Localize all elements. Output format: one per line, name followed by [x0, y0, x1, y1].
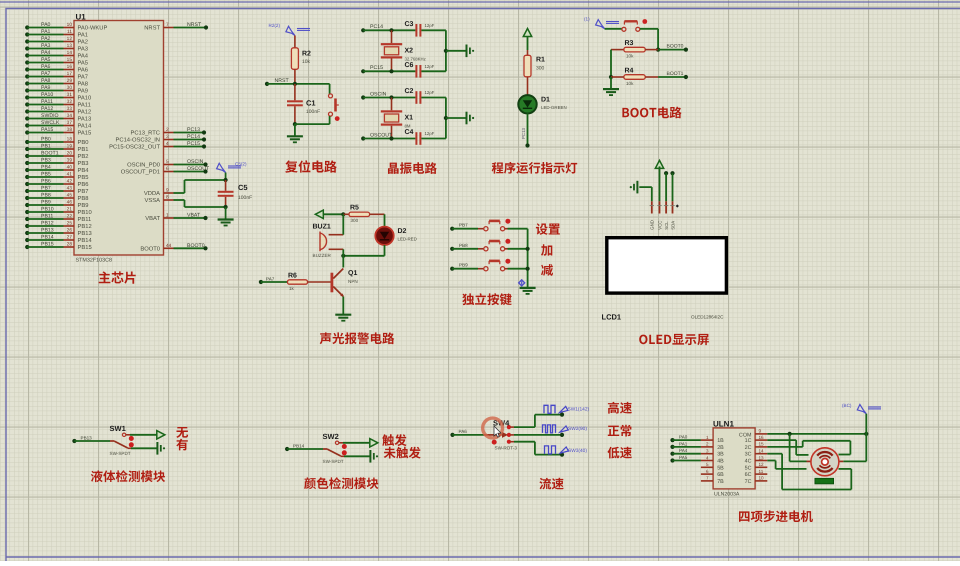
svg-text:PB12: PB12 — [41, 221, 54, 227]
pin PB8 wire + label — [25, 193, 88, 203]
svg-text:VCC: VCC — [657, 221, 662, 230]
label LCD1 — [602, 313, 622, 322]
svg-text:45: 45 — [67, 193, 73, 199]
value OLED12864I2C — [691, 315, 724, 320]
resistor R2 — [291, 48, 311, 84]
svg-text:18: 18 — [67, 137, 73, 143]
svg-text:PB10: PB10 — [78, 209, 92, 216]
svg-text:PB7: PB7 — [459, 223, 468, 228]
svg-text:44: 44 — [166, 243, 172, 249]
pin PB12 wire + label — [25, 221, 92, 231]
svg-text:PA0: PA0 — [41, 22, 51, 28]
wire SW1 bottom throw to ground — [131, 447, 157, 449]
svg-text:PB11: PB11 — [41, 214, 53, 220]
svg-text:14: 14 — [759, 449, 765, 454]
net PC14 wire — [361, 24, 415, 32]
pin 7C of ULN1 — [745, 476, 768, 485]
svg-text:SW1: SW1 — [110, 424, 126, 433]
wire to button — [329, 84, 331, 94]
svg-text:10: 10 — [67, 22, 73, 28]
wire flag to boot button — [605, 28, 622, 30]
label four-phase stepper motor (Chinese) — [739, 510, 813, 522]
svg-text:PA8: PA8 — [41, 78, 51, 84]
svg-text:PA3: PA3 — [78, 46, 89, 53]
svg-text:SDA: SDA — [670, 221, 675, 230]
common key bus wire — [526, 229, 530, 288]
LED D1 (green) — [518, 95, 566, 113]
svg-text:PA1: PA1 — [78, 33, 89, 39]
svg-text:13: 13 — [759, 455, 765, 460]
svg-text:PB14: PB14 — [78, 238, 93, 244]
svg-text:300: 300 — [351, 218, 359, 223]
svg-text:10: 10 — [759, 476, 765, 481]
wires buzzer to nodes — [342, 214, 344, 256]
svg-text:SW2: SW2 — [323, 432, 339, 441]
svg-text:BOOT0: BOOT0 — [667, 44, 684, 50]
svg-text:2: 2 — [706, 442, 709, 447]
svg-text:PA9: PA9 — [78, 88, 89, 95]
svg-text:PA4: PA4 — [41, 50, 51, 56]
wire C3 to corner — [421, 30, 446, 71]
svg-text:PB13: PB13 — [41, 228, 54, 234]
svg-text:4: 4 — [166, 141, 169, 147]
svg-text:PB0: PB0 — [41, 137, 51, 143]
svg-text:PC14-OSC32_IN: PC14-OSC32_IN — [116, 137, 160, 144]
svg-text:GND: GND — [650, 220, 655, 230]
ground (crystal X1) — [467, 112, 475, 125]
svg-text:Q1: Q1 — [348, 270, 357, 277]
label not triggered (Chinese) — [384, 447, 421, 459]
IC ULN1 body — [713, 428, 755, 489]
svg-text:1B: 1B — [717, 438, 724, 444]
label flow speed (Chinese) — [539, 478, 563, 490]
svg-text:25: 25 — [67, 221, 73, 227]
svg-text:R3: R3 — [625, 40, 634, 47]
svg-text:C5: C5 — [238, 183, 248, 192]
pin PA2 wire + label — [25, 36, 88, 46]
wire to ground + junction — [444, 116, 466, 120]
pin PA8 wire + label — [25, 78, 88, 88]
pin 3B of ULN1 — [670, 448, 724, 458]
buzzer BUZ1 — [313, 224, 344, 259]
svg-text:PA10: PA10 — [78, 95, 92, 102]
pin 5C of ULN1 — [745, 462, 768, 471]
svg-text:PA15: PA15 — [41, 127, 53, 133]
svg-text:PA7: PA7 — [266, 277, 275, 282]
svg-text:5: 5 — [706, 462, 709, 467]
wire 2C to motor right-upper — [767, 441, 850, 455]
wire D2 to collector node — [341, 245, 384, 258]
svg-text:PB4: PB4 — [78, 168, 90, 174]
pin 2C of ULN1 — [745, 442, 768, 451]
capacitor C3 — [405, 21, 435, 37]
pin VBAT wire + net VBAT — [145, 213, 207, 223]
svg-text:C3: C3 — [405, 21, 414, 28]
pin PB15 wire + label — [25, 242, 92, 252]
svg-text:PA12: PA12 — [41, 106, 53, 112]
net BOOT0 wire — [658, 44, 688, 52]
svg-text:PB13: PB13 — [78, 230, 92, 237]
pin PB2 wire + label — [25, 151, 88, 161]
svg-text:PA7: PA7 — [41, 71, 51, 77]
svg-text:3: 3 — [706, 449, 709, 454]
svg-text:X2: X2 — [405, 47, 414, 54]
pin OSCOUT_PD1 wire + net OSCOUT — [121, 166, 210, 176]
svg-text:PC13: PC13 — [187, 127, 200, 133]
svg-text:21: 21 — [67, 207, 73, 213]
svg-text:(1): (1) — [584, 17, 590, 22]
svg-text:SW-ROT-3: SW-ROT-3 — [495, 446, 518, 451]
pin 1B of ULN1 — [670, 435, 724, 445]
svg-text:1C: 1C — [745, 438, 752, 444]
pin 6C of ULN1 — [745, 469, 768, 478]
push button (BOOT0 select) — [622, 19, 647, 31]
svg-text:C4: C4 — [405, 129, 414, 136]
pin PB7 wire + label — [25, 186, 88, 196]
pin 2B of ULN1 — [670, 441, 724, 451]
net OSCIN wire — [361, 91, 415, 99]
pulse source SW2(90) — [543, 425, 588, 433]
value STM32F103C8 — [76, 258, 113, 264]
power flag (1) — [584, 17, 619, 29]
net PC15 wire — [361, 65, 415, 73]
svg-text:PA2: PA2 — [41, 36, 51, 42]
svg-text:6C: 6C — [745, 472, 752, 478]
svg-text:VDDA: VDDA — [144, 191, 160, 197]
svg-text:C6: C6 — [405, 62, 414, 69]
capacitor C2 — [405, 88, 435, 104]
svg-text:VBAT: VBAT — [187, 213, 201, 219]
svg-text:ULN2003A: ULN2003A — [714, 492, 740, 498]
push button PB8 + wire — [450, 239, 527, 251]
pin PA15 wire + label — [25, 127, 91, 137]
net PA6 wire — [450, 429, 484, 437]
svg-text:7B: 7B — [717, 479, 724, 485]
label sound-light alarm circuit (Chinese) — [320, 332, 395, 344]
label color detect module (Chinese) — [304, 477, 378, 489]
svg-text:PA0-WKUP: PA0-WKUP — [78, 25, 108, 32]
svg-text:2: 2 — [166, 127, 169, 133]
pin 3C of ULN1 — [745, 449, 768, 458]
svg-text:BOOT0: BOOT0 — [187, 243, 205, 249]
svg-text:U1: U1 — [76, 13, 87, 22]
svg-text:PA13: PA13 — [78, 116, 92, 123]
svg-text:34: 34 — [67, 113, 73, 119]
pin PA14 wire + label — [25, 120, 92, 130]
wire COM row — [767, 432, 868, 436]
svg-text:PB14: PB14 — [293, 444, 305, 449]
svg-text:OSCIN: OSCIN — [187, 159, 204, 165]
svg-text:6: 6 — [166, 166, 169, 172]
svg-text:PA3: PA3 — [41, 43, 51, 49]
svg-text:1: 1 — [706, 435, 709, 440]
resistor R6 + net PA7 — [259, 273, 331, 292]
wire SW4 mid to pulse — [514, 433, 564, 437]
svg-text:PC14: PC14 — [187, 134, 200, 140]
svg-text:11: 11 — [759, 469, 764, 474]
svg-text:PA14: PA14 — [78, 124, 93, 130]
wire to ground + junction — [444, 49, 466, 53]
pin 1C of ULN1 — [745, 435, 768, 444]
pin PB5 wire + label — [25, 172, 88, 182]
wire below D1 + net PC13 — [521, 114, 530, 148]
svg-text:22: 22 — [67, 214, 73, 220]
resistor R5 — [343, 205, 384, 224]
pin PB3 wire + label — [25, 158, 88, 168]
tiny node marker — [676, 204, 679, 207]
svg-text:100nF: 100nF — [306, 109, 320, 115]
svg-text:R2(2): R2(2) — [269, 23, 281, 28]
svg-text:27: 27 — [67, 235, 73, 241]
svg-text:PB9: PB9 — [459, 263, 468, 268]
svg-text:PB15: PB15 — [41, 242, 54, 248]
wire 4C to motor left-lower — [767, 461, 806, 469]
svg-text:38: 38 — [67, 127, 73, 133]
pin VSSA wire — [145, 195, 226, 207]
pin PB6 wire + label — [25, 179, 88, 189]
capacitor C1 — [287, 84, 320, 124]
svg-text:7C: 7C — [745, 479, 752, 485]
power flag R2(2) — [269, 23, 311, 48]
wire 1C to motor left-upper — [767, 440, 808, 455]
svg-text:R1: R1 — [536, 57, 545, 64]
svg-text:20: 20 — [67, 151, 73, 157]
svg-text:16: 16 — [759, 435, 765, 440]
wire flag down to motor right — [843, 414, 866, 462]
svg-text:100nF: 100nF — [238, 195, 252, 201]
crystal X2 — [381, 30, 426, 71]
svg-text:NPN: NPN — [348, 279, 358, 284]
pin PA11 wire + label — [25, 99, 91, 109]
highlight ring + cursor — [483, 418, 503, 438]
pin PA6 wire + label — [25, 64, 88, 74]
wire node to Q1 collector — [342, 256, 344, 268]
OLED pin names rotated — [650, 220, 655, 230]
svg-text:PA2: PA2 — [78, 39, 89, 46]
svg-text:PB9: PB9 — [41, 200, 51, 206]
svg-text:OSCIN_PD0: OSCIN_PD0 — [127, 162, 160, 169]
net BOOT1 wire — [658, 71, 688, 79]
wire to ground + ground (BOOT) — [603, 77, 619, 95]
label reset circuit (Chinese) — [285, 160, 337, 172]
push button (reset) — [329, 94, 340, 121]
svg-text:PB5: PB5 — [41, 172, 51, 178]
svg-text:D1: D1 — [541, 97, 550, 104]
wire SW2 top throw to power arrow — [343, 439, 378, 447]
label BOOT circuit (Chinese) — [622, 107, 681, 119]
svg-text:NRST: NRST — [275, 78, 290, 84]
svg-text:PB3: PB3 — [41, 158, 51, 164]
pin PA7 wire + label — [25, 71, 88, 81]
svg-text:PA5: PA5 — [679, 455, 688, 460]
label program running indicator (Chinese) — [492, 162, 578, 174]
switch SW4 (SW-ROT-3) — [484, 419, 517, 451]
pin PA10 wire + label — [25, 92, 91, 102]
svg-text:26: 26 — [67, 228, 73, 234]
ground (keys) — [520, 288, 536, 294]
svg-text:ULN1: ULN1 — [713, 419, 734, 428]
ground under C5 — [218, 220, 234, 226]
label minus (Chinese) — [541, 264, 553, 276]
capacitor C6 — [405, 62, 435, 78]
stepper motor — [807, 448, 844, 476]
svg-text:PB8: PB8 — [78, 195, 89, 202]
svg-text:6B: 6B — [717, 472, 724, 478]
svg-text:12: 12 — [67, 36, 73, 42]
LED D2 (red) — [375, 227, 416, 245]
pin PB13 wire + label — [25, 228, 92, 238]
svg-text:PB5: PB5 — [78, 175, 89, 181]
svg-text:13: 13 — [67, 43, 73, 49]
node C5 top — [224, 178, 228, 191]
wire R5 to D2 — [384, 214, 386, 227]
svg-text:39: 39 — [67, 158, 73, 164]
svg-text:PA10: PA10 — [41, 92, 53, 98]
pin PC15-OSC32_OUT wire + net PC15 — [109, 141, 206, 151]
pulse source SW3(40) — [545, 446, 588, 454]
svg-text:9: 9 — [759, 429, 762, 434]
svg-text:LCD1: LCD1 — [602, 313, 622, 322]
svg-text:1k: 1k — [289, 286, 295, 291]
power arrow (LED supply) — [523, 29, 531, 51]
svg-text:PC14: PC14 — [370, 24, 383, 30]
svg-text:VSSA: VSSA — [145, 197, 161, 204]
pin PC14-OSC32_IN wire + net PC14 — [116, 134, 207, 144]
svg-text:17: 17 — [67, 71, 73, 77]
net PB14 wire — [285, 444, 323, 452]
push button PB7 + wire — [450, 219, 527, 231]
svg-text:PB10: PB10 — [41, 207, 54, 213]
svg-text:(BC): (BC) — [842, 403, 852, 408]
svg-text:12pF: 12pF — [425, 131, 435, 136]
svg-text:32: 32 — [67, 99, 73, 105]
svg-text:PB7: PB7 — [78, 189, 89, 195]
bottom wire of reset — [293, 116, 330, 136]
wire SW4 top to pulse — [514, 413, 564, 428]
svg-text:PB8: PB8 — [459, 243, 468, 248]
wire SW1 top throw to power arrow — [130, 431, 165, 439]
svg-text:5: 5 — [166, 159, 169, 165]
resistor R4 — [611, 68, 658, 86]
label high speed (Chinese) — [608, 402, 632, 414]
ground reset — [287, 136, 303, 142]
svg-text:2C: 2C — [745, 445, 752, 451]
svg-text:7: 7 — [166, 22, 169, 28]
svg-text:8M: 8M — [405, 124, 411, 129]
svg-text:NRST: NRST — [187, 22, 202, 28]
svg-text:PA11: PA11 — [41, 99, 53, 105]
svg-text:3C: 3C — [745, 452, 752, 458]
svg-text:PA4: PA4 — [679, 448, 688, 453]
pin 4C of ULN1 — [745, 455, 768, 464]
pin PA5 wire + label — [25, 57, 88, 67]
svg-text:PB1: PB1 — [78, 147, 89, 153]
svg-text:42: 42 — [67, 179, 73, 185]
pin BOOT0 wire + net BOOT0 — [140, 243, 207, 253]
blue marker (keys) — [519, 280, 525, 286]
svg-text:29: 29 — [67, 78, 73, 84]
svg-text:10k: 10k — [626, 81, 634, 86]
node C5 bottom + ground — [224, 197, 228, 219]
pin PA1 wire + label — [25, 29, 88, 39]
label independent keys (Chinese) — [462, 293, 512, 305]
svg-text:4C: 4C — [745, 459, 752, 465]
svg-text:41: 41 — [67, 172, 73, 178]
wire button to R3 node — [640, 29, 660, 52]
ground (alarm) — [335, 315, 351, 321]
svg-text:9: 9 — [166, 188, 169, 194]
svg-text:4B: 4B — [717, 459, 724, 465]
transistor Q1 — [331, 269, 358, 297]
node NRST + wire — [265, 78, 330, 86]
svg-text:8: 8 — [166, 195, 169, 201]
svg-text:C5(2): C5(2) — [235, 162, 247, 167]
ground (OLED) — [630, 181, 652, 202]
svg-text:300: 300 — [536, 66, 545, 72]
svg-text:PB6: PB6 — [41, 179, 51, 185]
wire C6 to corner — [421, 70, 446, 72]
svg-text:R4: R4 — [625, 68, 634, 75]
svg-text:SWCLK: SWCLK — [41, 120, 60, 126]
svg-text:PA4: PA4 — [78, 54, 89, 60]
capacitor C4 — [405, 129, 435, 145]
resistor R1 — [524, 50, 545, 95]
value ULN2003A — [714, 492, 740, 498]
crystal X1 — [381, 98, 413, 139]
svg-text:11: 11 — [67, 29, 72, 35]
svg-text:PB11: PB11 — [78, 217, 92, 223]
pin 4B of ULN1 — [670, 455, 724, 465]
svg-text:R5: R5 — [350, 205, 359, 212]
label U1 — [76, 13, 87, 22]
pin PA12 wire + label — [25, 106, 91, 116]
wire COM branch to motor left — [790, 434, 807, 462]
power arrow (alarm supply) — [315, 210, 345, 218]
LCD1 display body — [607, 238, 727, 293]
svg-text:PA8: PA8 — [78, 81, 89, 88]
svg-text:OSCOUT_PD1: OSCOUT_PD1 — [121, 169, 160, 176]
pin end marks (OLED) — [650, 205, 654, 207]
svg-text:BOOT1: BOOT1 — [667, 71, 684, 77]
svg-text:15: 15 — [759, 442, 765, 447]
pin PB10 wire + label — [25, 207, 92, 217]
pin 6B of ULN1 — [701, 469, 724, 478]
net PB13 wire — [72, 436, 110, 444]
label crystal circuit (Chinese) — [388, 162, 437, 174]
svg-text:PA5: PA5 — [78, 61, 89, 67]
push button PB9 + wire — [450, 259, 527, 271]
svg-text:4: 4 — [706, 455, 709, 460]
svg-text:VBAT: VBAT — [145, 216, 160, 222]
wire 3C to motor right-lower — [767, 454, 851, 490]
pin PC13_RTC wire + net PC13 — [130, 127, 206, 137]
svg-text:PA5: PA5 — [41, 57, 51, 63]
svg-text:28: 28 — [67, 242, 73, 248]
wire C4 to corner — [421, 138, 446, 140]
pin OSCIN_PD0 wire + net OSCIN — [127, 159, 207, 169]
pin PA3 wire + label — [25, 43, 88, 53]
svg-text:C2: C2 — [405, 88, 414, 95]
wire SW2 bottom throw to ground — [344, 455, 370, 457]
svg-text:12pF: 12pF — [425, 64, 435, 69]
svg-text:PA7: PA7 — [78, 75, 89, 81]
svg-text:37: 37 — [67, 120, 73, 126]
svg-text:3: 3 — [166, 134, 169, 140]
OLED pin stubs — [651, 201, 653, 213]
svg-text:10k: 10k — [626, 54, 634, 59]
svg-text:PB14: PB14 — [41, 235, 54, 241]
svg-text:OSCIN: OSCIN — [370, 91, 387, 97]
